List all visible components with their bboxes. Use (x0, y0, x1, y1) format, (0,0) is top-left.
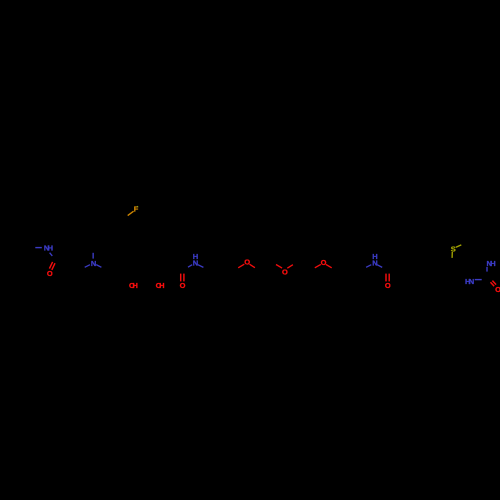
svg-text:O: O (47, 269, 53, 278)
bond N13 down (blue half, vertical) (486, 267, 488, 272)
svg-text:O: O (385, 281, 391, 290)
bond ether O9 right (red half) (326, 264, 332, 267)
green artifact speck near F (136, 205, 139, 208)
bond N6 lower-right (blue half) (198, 265, 204, 268)
svg-text:S: S (451, 245, 456, 254)
svg-text:N: N (91, 259, 96, 268)
double bond C=O urea O15 (red half, diagonal) (491, 282, 495, 286)
bond ether O9 left (red half) (315, 264, 321, 267)
svg-text:O: O (244, 258, 250, 267)
svg-text:NH: NH (487, 259, 496, 268)
svg-text:O: O (495, 285, 500, 294)
bond pyrrole N-C (blue half, vertical) (92, 253, 94, 259)
double bond C=O carbonyl O11 (red half, vertical) (385, 274, 387, 282)
bond N10 lower-left (blue half) (366, 265, 371, 268)
bond benzylamine C-N (blue half) (35, 247, 42, 249)
bond N10 lower-right (blue half) (377, 265, 382, 268)
svg-text:OH: OH (129, 281, 138, 290)
svg-text:NH: NH (44, 244, 53, 253)
bond N14 right (blue half, horizontal) (475, 279, 482, 281)
bond N6 lower-left (blue half) (188, 265, 192, 268)
bond C-F (orange half) (128, 211, 134, 215)
bond ether O8 right (red half) (287, 265, 293, 269)
bond ether O7 right (red half) (250, 264, 255, 268)
bond ether O7 left (red half) (238, 264, 244, 268)
svg-text:OH: OH (156, 281, 165, 290)
svg-text:F: F (134, 204, 139, 213)
bond ether O8 left (red half) (276, 265, 282, 269)
svg-text:N: N (193, 258, 198, 267)
svg-text:O: O (282, 267, 288, 276)
bond N1-C(=O) (blue half) (50, 253, 53, 256)
bond S12 upper-right (olive half) (456, 245, 461, 247)
svg-text:N: N (372, 258, 377, 267)
double bond C=O carbonyl O5 (red half, vertical) (180, 274, 182, 282)
svg-text:O: O (321, 258, 327, 267)
bond N2 lower-left (blue half) (85, 265, 90, 268)
bond S12 down (olive half) (451, 252, 453, 258)
svg-text:O: O (180, 281, 186, 290)
double bond C=O carbonyl O1 (red half) (49, 262, 52, 269)
bond N2 lower-right (blue half) (96, 265, 101, 268)
svg-text:HN: HN (465, 277, 474, 286)
